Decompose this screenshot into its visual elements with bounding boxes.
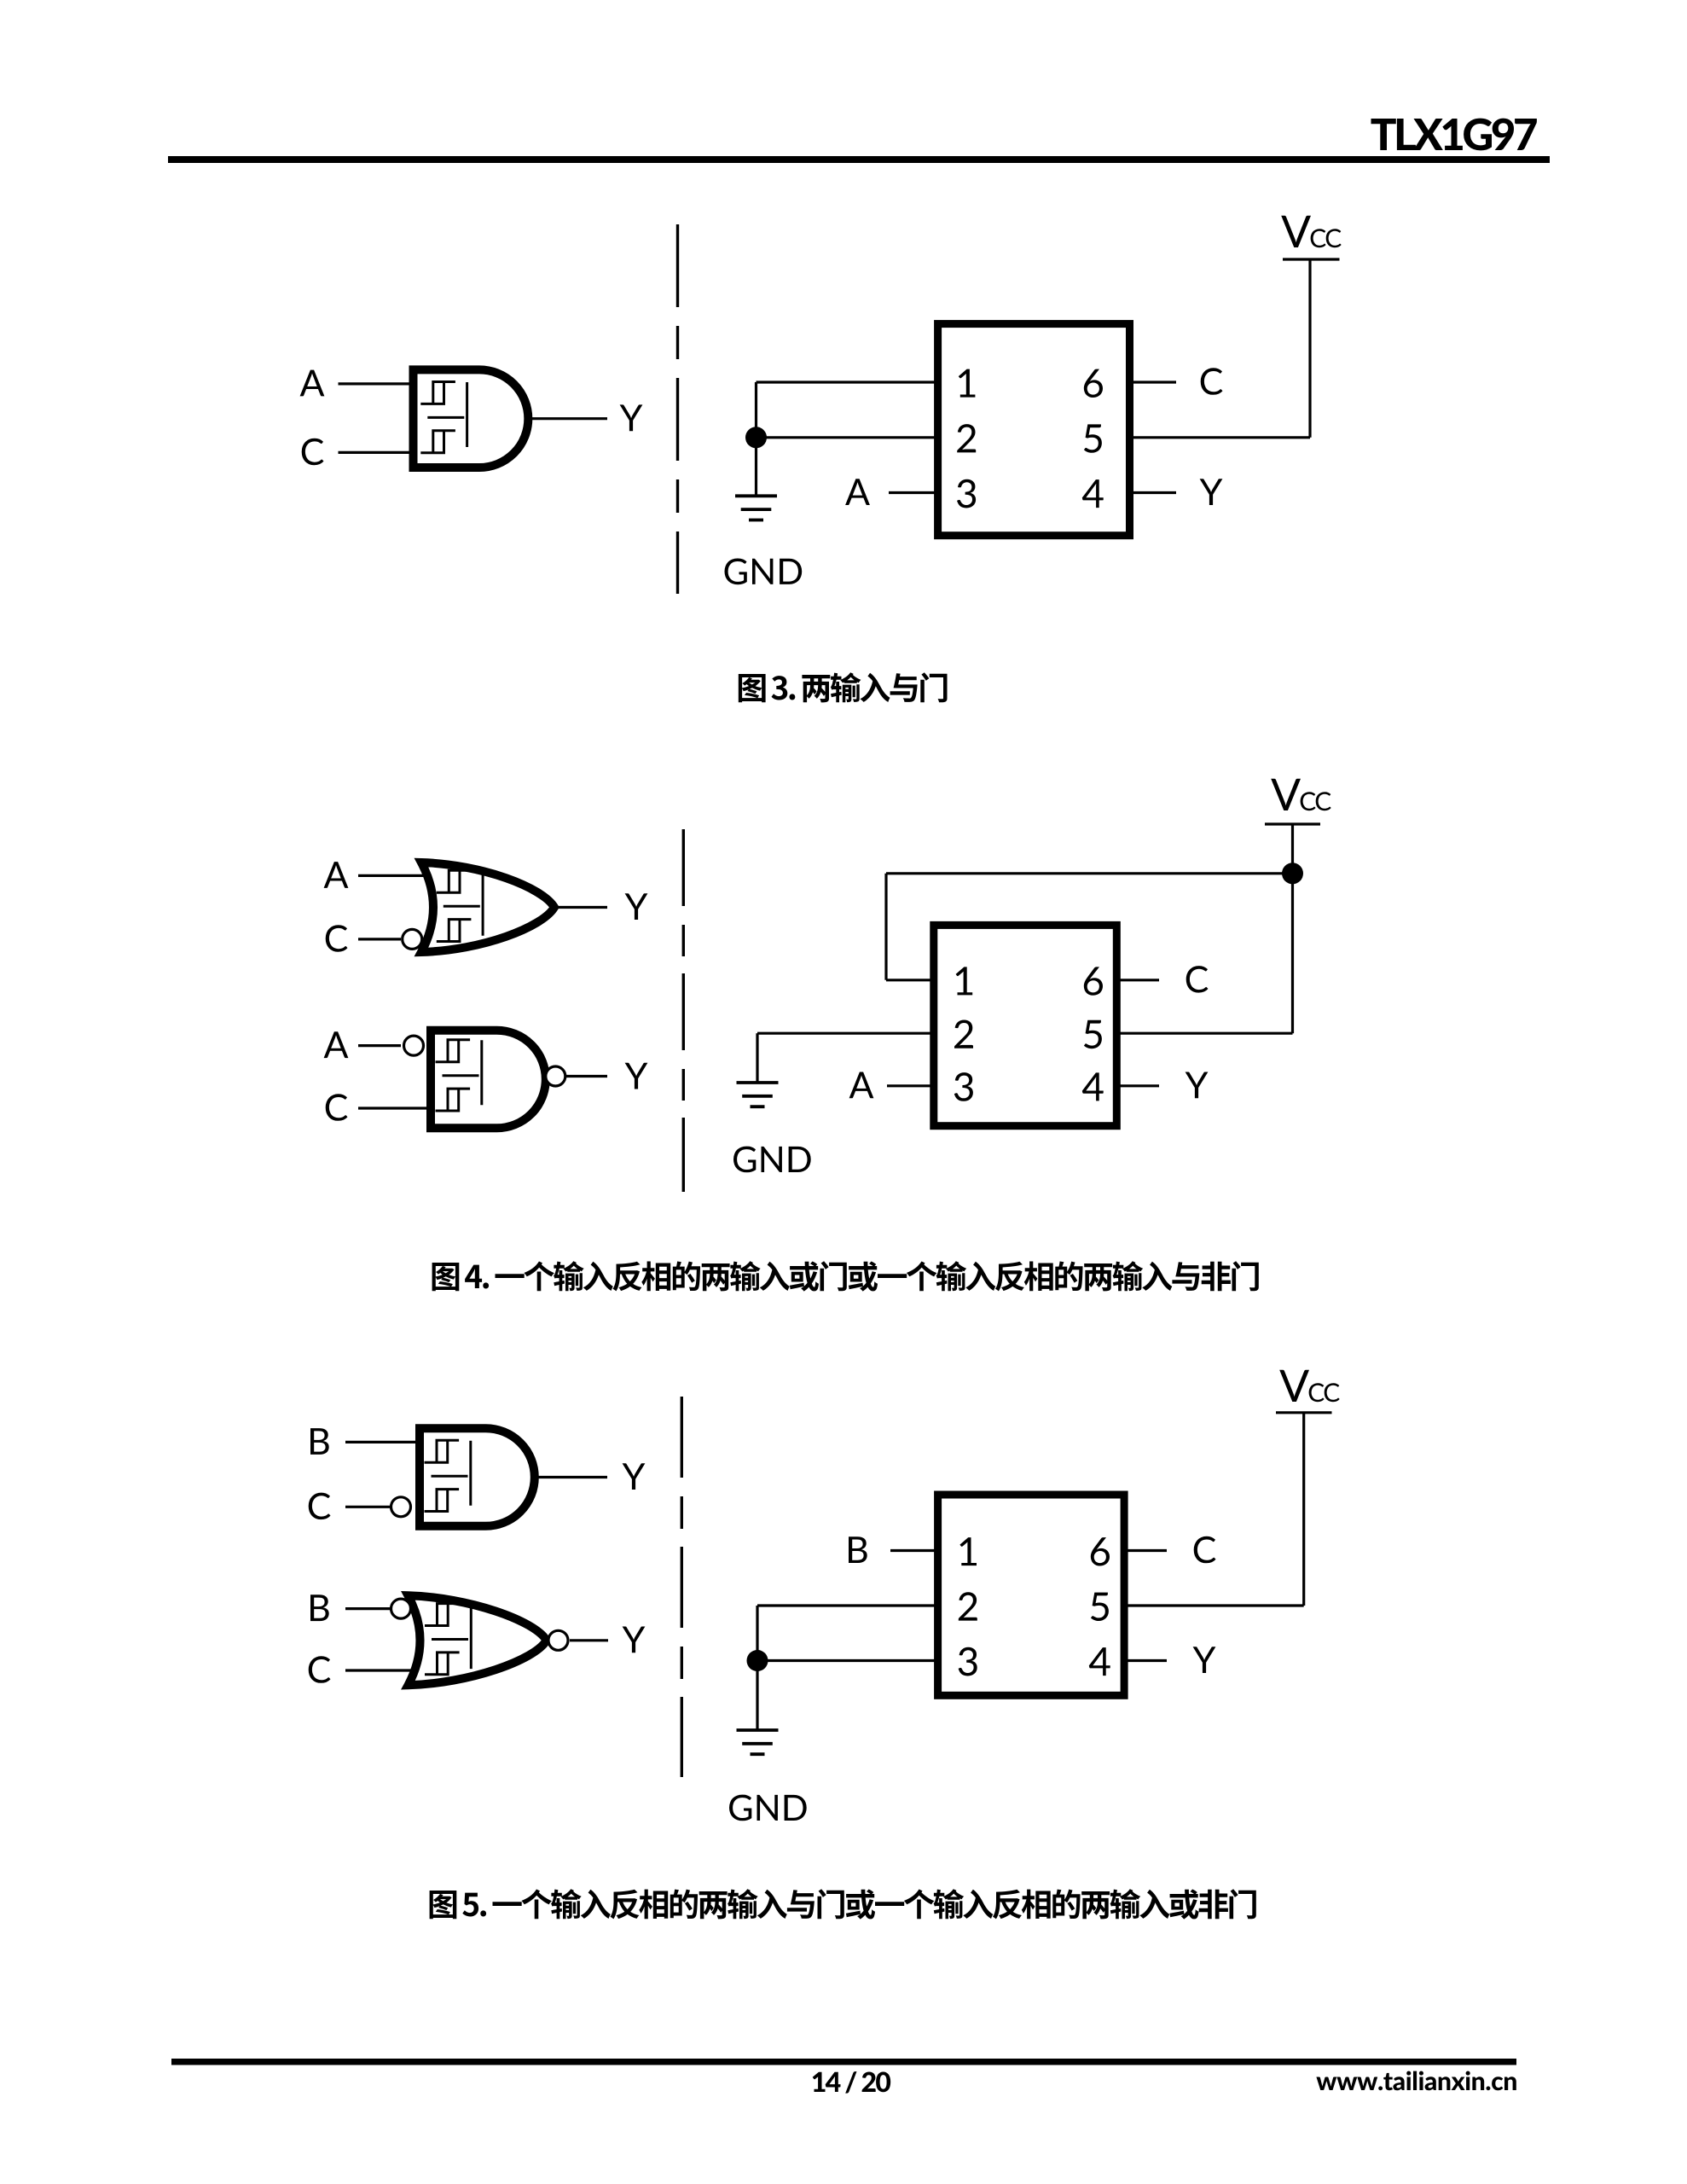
fig5 wire pin6 to C <box>1123 1549 1167 1552</box>
fig4 Vcc label <box>1271 779 1331 811</box>
fig4 wire pin1 <box>886 979 935 981</box>
fig4 input label A (OR) <box>324 862 349 888</box>
fig4 G3 hysteresis marks <box>436 1040 482 1111</box>
fig4 inversion bubble output (NAND) <box>546 1066 565 1086</box>
fig3 wire pin5 to Vcc <box>1129 436 1310 439</box>
fig4 wire output Y (OR) <box>554 906 607 909</box>
figure 3 dashed separator <box>676 224 679 594</box>
fig5 pin number 2 <box>959 1592 977 1620</box>
fig3 ground symbol <box>735 496 777 520</box>
fig4 wire input C (OR) <box>358 938 401 940</box>
fig4 junction dot <box>1282 863 1303 884</box>
fig3 Schmitt AND gate G1 <box>414 369 529 468</box>
fig3 Vcc bar <box>1283 258 1340 260</box>
fig5 Vcc label <box>1279 1370 1340 1403</box>
fig4 pin number 3 <box>954 1072 973 1101</box>
fig3 wire input C <box>339 451 416 454</box>
fig4 output label Y right <box>1186 1072 1209 1099</box>
fig5 G4 hysteresis marks <box>425 1440 471 1511</box>
fig3 pin number 3 <box>957 479 976 508</box>
fig5 Vcc bar <box>1276 1411 1332 1414</box>
fig5 wire input B (NOR) <box>345 1607 391 1610</box>
fig4 pin number 4 <box>1082 1072 1104 1101</box>
fig4 input label C (NAND) <box>326 1094 348 1121</box>
fig4 wire input A (NAND) <box>358 1044 401 1047</box>
fig3 wire input A to pin3 <box>889 491 938 494</box>
fig4 wire pin5 <box>1116 1032 1293 1035</box>
fig4 output label Y (OR) <box>625 893 648 920</box>
fig5 output label C <box>1194 1536 1216 1564</box>
fig3 input label A <box>300 370 325 397</box>
fig5 IC package U1 <box>938 1495 1125 1695</box>
footer page number 14 / 20 <box>813 2071 890 2094</box>
fig5 wire input B to pin1 <box>890 1549 938 1552</box>
fig5 pin number 3 <box>959 1647 977 1676</box>
footer website www.tailianxin.cn <box>1316 2071 1516 2091</box>
fig5 wire input C (NOR) <box>345 1669 426 1671</box>
fig3 ground stem <box>755 438 757 497</box>
fig4 inversion bubble input A <box>404 1036 424 1055</box>
fig5 Schmitt AND gate G4 <box>420 1428 535 1526</box>
fig5 wire output Y (AND) <box>535 1476 607 1478</box>
fig4 inversion bubble input C <box>403 929 422 949</box>
fig5 wire pin5 to Vcc <box>1123 1604 1304 1606</box>
header part number TLX1G97 <box>1371 119 1537 151</box>
figure 4 caption <box>432 1261 1259 1291</box>
fig3 wire pin6 to C <box>1129 380 1176 383</box>
fig3 junction dot <box>745 427 767 448</box>
fig5 pin number 4 <box>1089 1647 1110 1676</box>
fig5 inversion bubble output (NOR) <box>548 1630 568 1650</box>
fig4 wire pin2 <box>757 1032 935 1035</box>
fig4 Schmitt NAND gate G3 <box>431 1031 546 1129</box>
fig4 wire Vcc to pin1 top <box>886 872 1293 874</box>
fig4 IC package U1 <box>934 925 1117 1125</box>
fig3 wire pin2 net <box>757 436 939 439</box>
fig5 input label C (NOR) <box>309 1656 331 1683</box>
fig4 Vcc stem <box>1291 824 1294 874</box>
fig5 wire pin3 <box>757 1659 938 1662</box>
figure 5 caption <box>430 1889 1256 1919</box>
fig4 wire pin4 to Y <box>1116 1084 1159 1087</box>
fig4 pin3 input label A <box>849 1072 874 1099</box>
fig5 ground label GND <box>729 1795 807 1821</box>
fig3 Vcc stem <box>1308 259 1311 438</box>
fig5 wire pin2 <box>757 1604 938 1606</box>
fig4 G2 hysteresis marks <box>437 870 483 941</box>
fig4 wire input A to pin3 <box>887 1084 935 1087</box>
fig3 output label C <box>1201 368 1223 395</box>
fig3 wire pin1-pin2 vertical <box>755 382 757 438</box>
fig3 G1 hysteresis marks <box>420 382 467 453</box>
fig3 pin number 6 <box>1084 369 1103 398</box>
fig4 wire input C (NAND) <box>358 1107 435 1109</box>
fig5 Vcc stem <box>1302 1413 1305 1606</box>
fig3 wire output Y <box>528 417 607 420</box>
fig4 ground label GND <box>733 1147 811 1173</box>
fig3 pin number 2 <box>957 424 976 452</box>
footer rule <box>171 2059 1516 2065</box>
fig3 wire pin4 to Y <box>1129 491 1176 494</box>
fig5 ground symbol <box>737 1730 779 1754</box>
fig3 IC package U1 <box>938 324 1130 536</box>
fig5 pin number 5 <box>1091 1593 1109 1621</box>
fig3 wire pin1 net <box>757 380 939 383</box>
fig5 input label B (NOR) <box>310 1594 329 1621</box>
fig5 Schmitt NOR gate G5 <box>409 1595 547 1685</box>
fig3 pin3 input label A <box>845 479 870 505</box>
fig5 output label Y (AND) <box>623 1463 646 1490</box>
fig5 input label C (AND) <box>309 1493 331 1520</box>
fig3 pin number 4 <box>1082 479 1104 508</box>
fig4 wire input A (OR) <box>358 874 435 877</box>
fig3 pin number 5 <box>1084 424 1102 452</box>
fig4 wire Vcc right vertical <box>1291 874 1294 1033</box>
fig4 output label Y (NAND) <box>625 1063 648 1089</box>
fig4 ground stem <box>756 1033 758 1083</box>
fig4 pin number 1 <box>956 967 973 995</box>
fig5 inversion bubble input B <box>391 1599 411 1618</box>
fig5 output label Y (NOR) <box>623 1627 646 1653</box>
fig3 Vcc label <box>1281 216 1342 248</box>
fig4 wire output Y (NAND) <box>566 1075 607 1077</box>
fig5 wire input B (AND) <box>345 1441 415 1443</box>
fig5 ground stem <box>756 1661 758 1731</box>
fig3 input label C <box>302 439 324 466</box>
fig4 input label C (OR) <box>326 925 348 952</box>
fig4 Vcc bar <box>1265 822 1320 825</box>
fig3 output label Y right <box>1200 479 1223 505</box>
fig4 input label A (NAND) <box>324 1031 349 1058</box>
fig4 Schmitt OR gate G2 <box>421 863 554 952</box>
fig4 ground symbol <box>737 1083 779 1107</box>
figure 3 caption <box>739 672 948 702</box>
fig5 inversion bubble input C <box>391 1497 411 1517</box>
fig5 wire output Y (NOR) <box>570 1639 608 1641</box>
fig5 output label Y right <box>1193 1647 1216 1673</box>
fig4 pin number 6 <box>1084 967 1103 995</box>
fig4 pin number 5 <box>1084 1020 1102 1048</box>
fig4 wire pin1 vertical <box>884 874 887 980</box>
fig5 pin number 1 <box>959 1537 977 1565</box>
fig3 output label Y <box>620 404 643 431</box>
fig5 wire input C (AND) <box>345 1506 391 1508</box>
fig3 ground label GND <box>725 559 803 585</box>
fig4 wire pin6 to C <box>1116 979 1159 981</box>
fig5 pin1 input label B <box>849 1536 867 1563</box>
fig4 pin number 2 <box>954 1020 973 1048</box>
fig3 wire input A <box>339 382 416 385</box>
fig5 pin number 6 <box>1091 1537 1110 1565</box>
fig5 G5 hysteresis marks <box>425 1604 471 1675</box>
fig4 output label C <box>1186 966 1209 993</box>
fig5 wire pin2-pin3 vertical <box>756 1606 758 1661</box>
fig5 wire pin4 to Y <box>1123 1659 1167 1662</box>
figure 5 dashed separator <box>681 1397 683 1777</box>
fig3 pin number 1 <box>959 369 976 398</box>
header rule <box>168 156 1550 163</box>
fig5 input label B (AND) <box>310 1428 329 1455</box>
fig5 junction dot <box>747 1650 768 1671</box>
figure 4 dashed separator <box>682 829 685 1192</box>
